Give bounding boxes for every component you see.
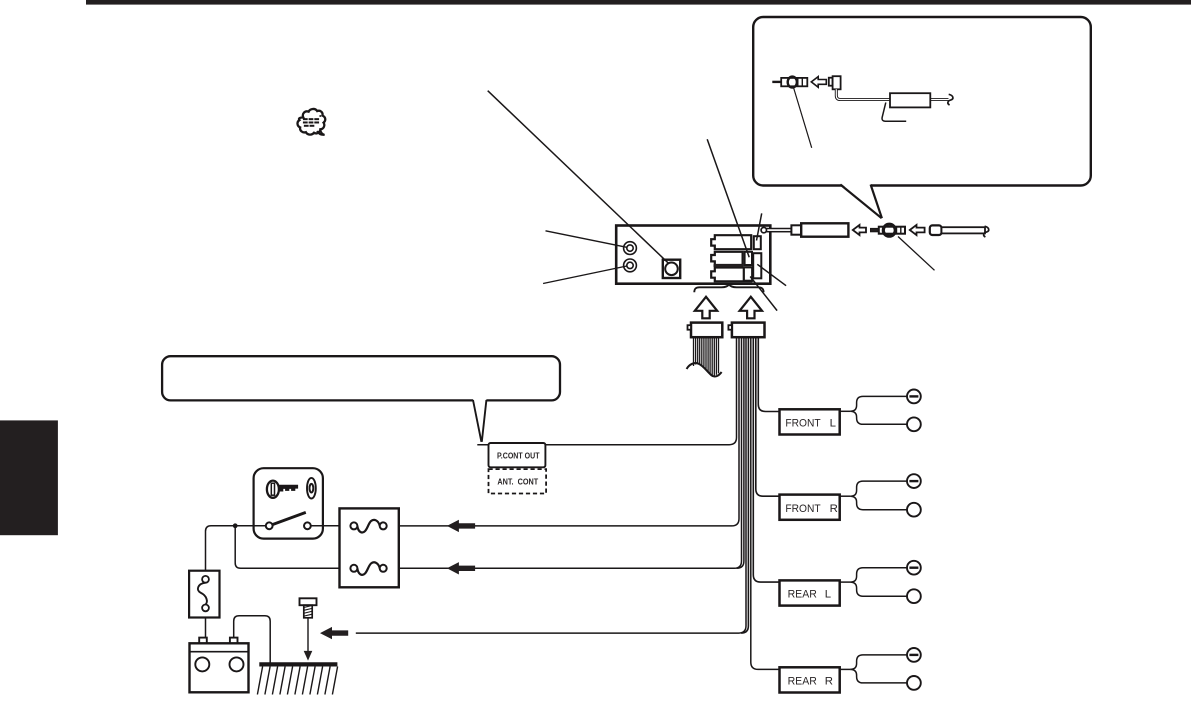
speaker terminal block REAR L	[780, 580, 840, 605]
svg-text:P.CONT OUT: P.CONT OUT	[497, 450, 540, 460]
callout bubble (wiring note)	[162, 356, 560, 442]
wire: ACC via ignition switch	[387, 338, 739, 526]
svg-text:REAR: REAR	[788, 676, 817, 688]
car antenna cord	[930, 225, 985, 235]
ISO connector tab C (bottom)	[711, 268, 751, 282]
speaker terminal block REAR R	[780, 667, 840, 692]
RCA preout jack (top)	[624, 242, 637, 255]
wire into key switch with corner down to fuse holder	[206, 526, 266, 571]
arrow on ground wire	[320, 627, 348, 639]
negative terminal REAR L	[907, 561, 921, 575]
antenna input jack	[663, 260, 680, 278]
hooked lead under box (inside bubble)	[882, 103, 906, 122]
hollow arrow 1 (insert)	[853, 225, 866, 235]
P.CONT OUT tag	[489, 443, 546, 467]
junction dot	[233, 523, 238, 528]
speech bubble callout (antenna adapter note)	[753, 17, 1091, 218]
speaker terminal block FRONT R	[780, 495, 840, 520]
motor antenna plug	[871, 224, 906, 236]
ignition key switch box	[254, 468, 323, 538]
svg-text:R: R	[830, 503, 838, 515]
keyhole icon	[307, 478, 316, 499]
leader from tall socket	[757, 264, 786, 285]
svg-text:REAR: REAR	[788, 589, 817, 601]
leader to RCA jack top	[546, 231, 627, 248]
wire: battery +B (switch side)	[235, 526, 350, 569]
chassis ground surface	[257, 664, 337, 694]
wire: harness filler lead 1	[737, 338, 744, 569]
mounting screw	[300, 598, 317, 618]
leader to middle socket	[707, 139, 749, 257]
left margin black tab	[0, 420, 58, 535]
wire split to FRONT L speaker	[840, 396, 907, 424]
screw-down arrow	[304, 618, 313, 661]
small socket (middle column lower)	[744, 267, 752, 281]
small socket (middle column upper)	[745, 252, 752, 265]
fuse box	[340, 508, 399, 587]
negative terminal FRONT R	[907, 474, 921, 488]
head unit rear chassis	[616, 226, 770, 284]
wire battery to chassis ground	[234, 616, 271, 664]
wire split to REAR R speaker	[840, 655, 907, 683]
svg-text:R: R	[825, 676, 833, 688]
speaker terminal block FRONT L	[780, 409, 840, 434]
battery	[190, 638, 249, 693]
wire from key switch to fuse box	[311, 525, 354, 527]
svg-text:ANT. CONT: ANT. CONT	[497, 477, 538, 487]
svg-text:L: L	[830, 418, 836, 430]
small socket (top right)	[754, 236, 761, 249]
svg-text:FRONT: FRONT	[785, 503, 820, 515]
antenna adapter body	[791, 223, 848, 236]
leader to top right socket	[757, 213, 762, 240]
positive terminal REAR R	[907, 676, 921, 690]
leader line from mini plug	[794, 88, 812, 148]
fuse (ACC line)	[350, 520, 386, 533]
up arrow (right connector)	[740, 297, 762, 319]
hollow arrow 2 (insert)	[910, 225, 925, 235]
wire: speaker FRONT L	[758, 338, 779, 412]
RCA preout jack (bottom)	[624, 259, 637, 272]
positive terminal FRONT L	[907, 417, 921, 431]
brace under connectors	[694, 284, 763, 292]
antenna lead pin	[761, 227, 791, 232]
negative terminal FRONT L	[907, 390, 921, 404]
leader to RCA jack bottom	[543, 266, 627, 284]
cable break squiggle (inside bubble)	[948, 94, 953, 105]
up arrow (left connector)	[695, 297, 717, 319]
tall socket (right column)	[753, 253, 761, 278]
key icon	[267, 481, 298, 498]
wire: P.CONT (blue/white)	[477, 338, 736, 445]
cord break squiggle	[984, 226, 989, 237]
antenna cable (inside bubble)	[836, 89, 948, 99]
wire: battery +B	[387, 338, 742, 569]
wiring harness connector (right)	[728, 323, 764, 338]
wire: speaker FRONT R	[756, 338, 780, 497]
wire fuse holder to battery	[205, 618, 207, 638]
in-line fuse holder	[189, 571, 219, 618]
wire split to REAR L speaker	[840, 568, 907, 597]
noise filter box (inside bubble)	[890, 93, 930, 107]
svg-text:L: L	[825, 589, 831, 601]
kenwood mask-key cloud logo	[297, 109, 325, 135]
top header bar	[86, 0, 1191, 5]
switch contacts and lever	[266, 512, 311, 529]
ANT. CONT tag (dashed)	[489, 469, 547, 493]
wire: harness filler lead 2	[741, 338, 748, 634]
wire: ground (black)	[356, 338, 746, 634]
positive terminal REAR L	[907, 589, 921, 603]
negative terminal REAR R	[907, 648, 921, 662]
fuse (battery line)	[350, 562, 386, 575]
left connector wire bundle (cut)	[694, 338, 719, 376]
right-angle antenna plug (inside bubble)	[829, 76, 841, 89]
leader from motor antenna plug	[898, 237, 935, 271]
mini antenna plug (inside bubble)	[772, 77, 807, 88]
arrow on ACC wire	[447, 520, 475, 532]
arrow (insert plug, inside bubble)	[811, 77, 826, 88]
ISO connector tab B (middle)	[711, 252, 742, 265]
wiring harness connector (left)	[688, 323, 723, 338]
leader from lower socket	[750, 277, 777, 311]
wire: speaker REAR R	[751, 338, 779, 670]
wire: speaker REAR L	[753, 338, 779, 583]
leader to antenna jack	[488, 91, 668, 263]
svg-text:FRONT: FRONT	[785, 418, 820, 430]
ISO connector tab A (top)	[711, 235, 751, 249]
wire split to FRONT R speaker	[840, 481, 907, 510]
black key bar	[714, 264, 744, 267]
arrow on battery wire	[447, 562, 475, 574]
positive terminal FRONT R	[907, 503, 921, 517]
